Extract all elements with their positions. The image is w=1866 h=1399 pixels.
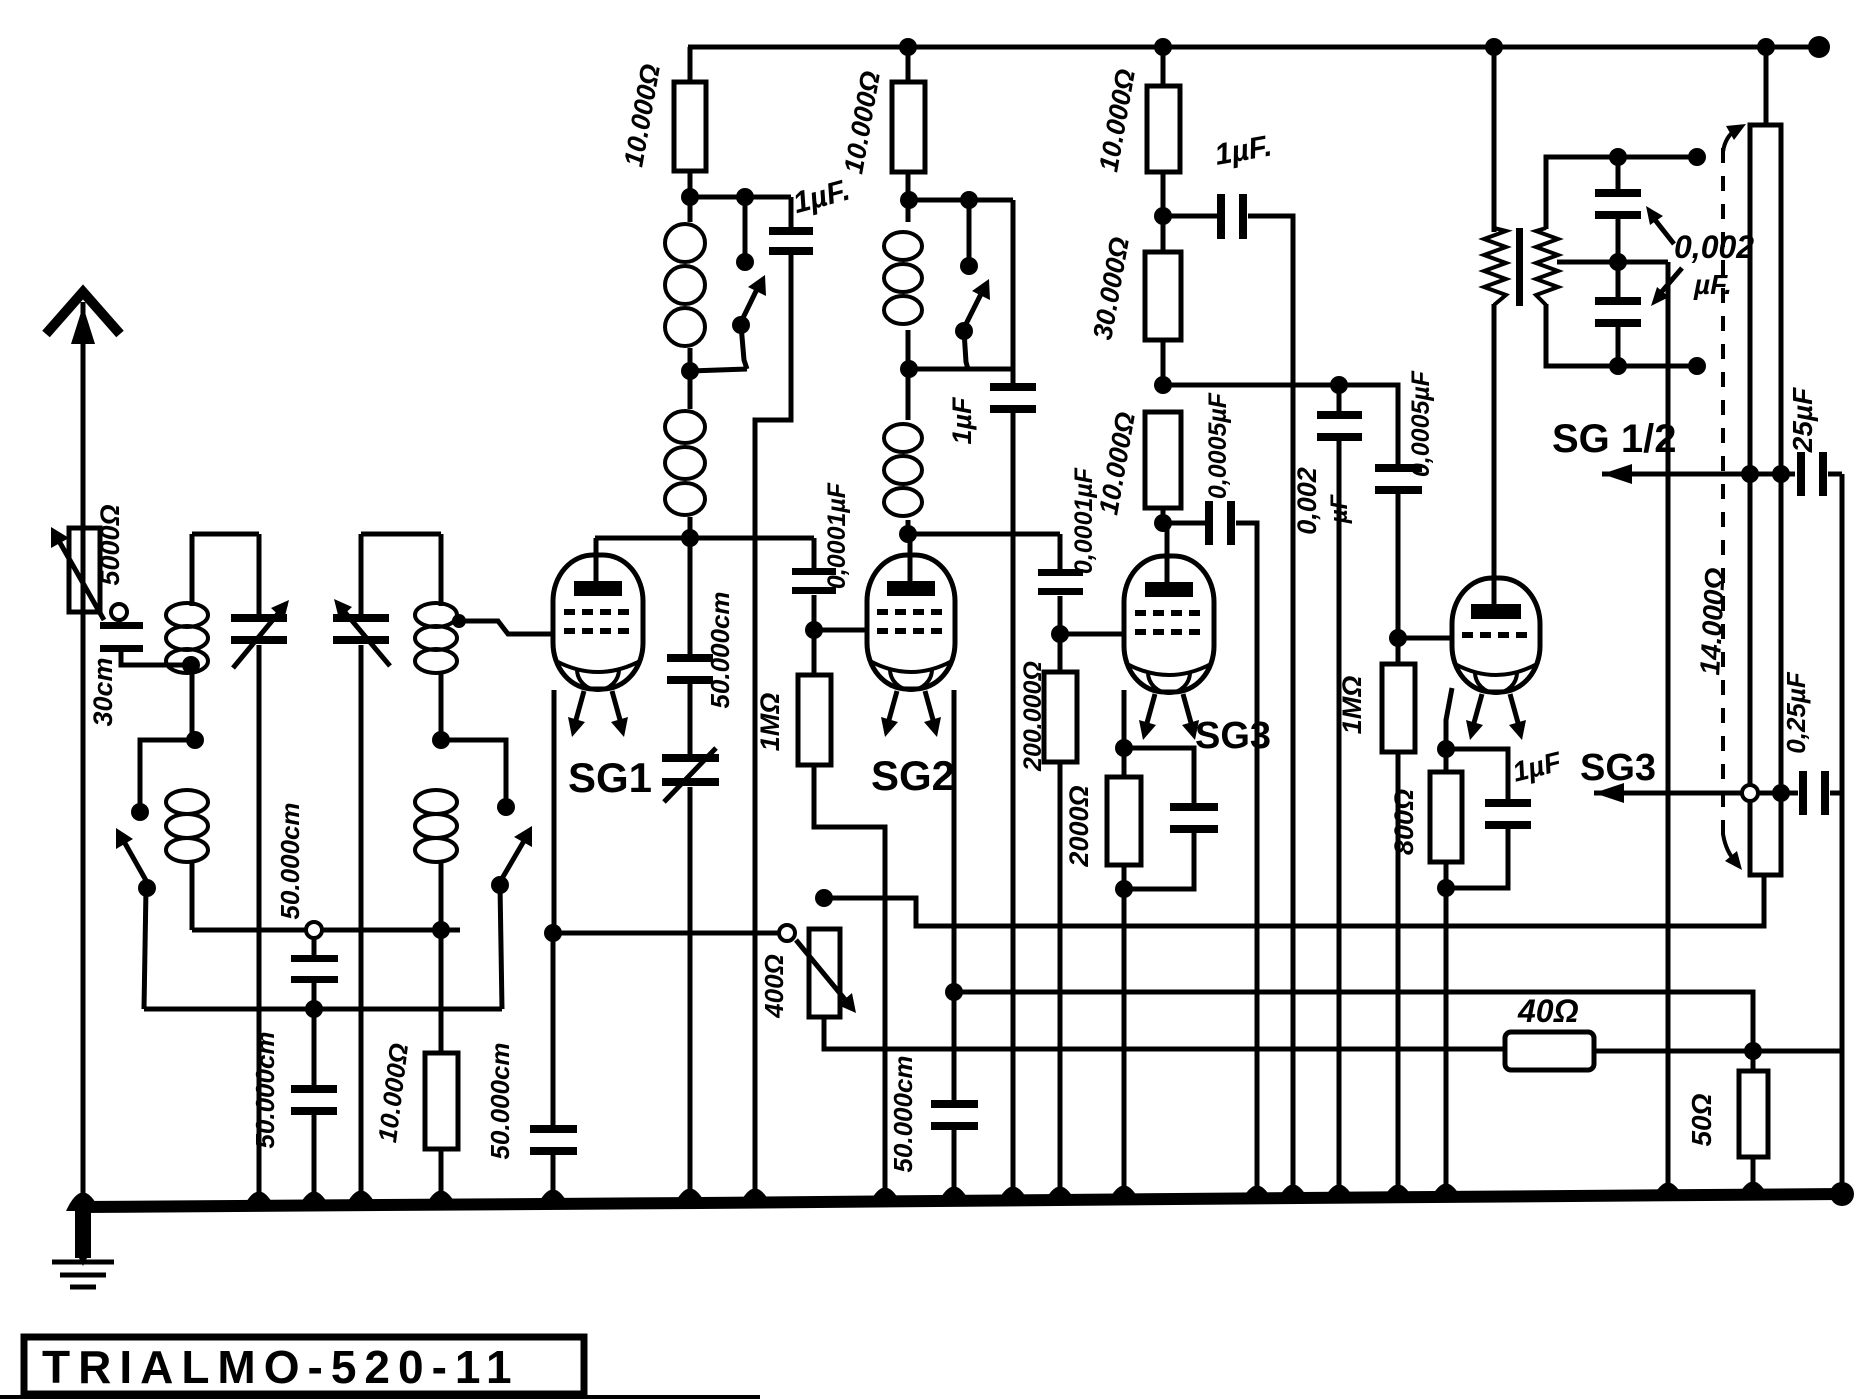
svg-text:SG2: SG2	[871, 752, 955, 799]
capacitor 1µF (screen bypass)	[1163, 214, 1220, 219]
resistor 2000Ω	[1122, 748, 1127, 777]
capacitor (SG3 cathode bypass)	[1124, 748, 1194, 809]
node SG2 anode	[899, 525, 917, 543]
wire to bus	[1444, 888, 1449, 1197]
capacitor 50.000cm (SG2 cathode)	[952, 992, 957, 1106]
antenna	[81, 302, 86, 1208]
svg-text:50.000cm: 50.000cm	[250, 1031, 280, 1148]
inductor L2 upper	[439, 534, 444, 606]
wire to SG2 grid	[814, 628, 867, 633]
wire SG 1/2 tap	[1602, 464, 1632, 484]
node coil tap	[681, 362, 699, 380]
wiper terminal	[111, 604, 127, 620]
wire pot bottom / filament rail	[824, 1017, 1505, 1049]
svg-text:50.000cm: 50.000cm	[275, 802, 305, 919]
svg-text:2000Ω: 2000Ω	[1064, 785, 1094, 867]
band switch S2	[441, 740, 506, 802]
svg-text:0,002: 0,002	[1292, 467, 1322, 535]
svg-text:µF.: µF.	[1693, 269, 1732, 300]
svg-text:SG 1/2: SG 1/2	[1552, 417, 1677, 461]
tap wire	[690, 369, 747, 371]
capacitor 0,0005µF (output grid)	[1375, 464, 1422, 472]
wire B+ top rail	[688, 45, 1822, 50]
tank1 top wire	[192, 532, 259, 537]
bus joint x=1257	[1240, 1186, 1274, 1205]
wire screen rail	[1163, 385, 1398, 465]
bus joint x=1060	[1043, 1187, 1077, 1206]
node	[1609, 253, 1627, 271]
capacitor 50.000cm (to bus)	[312, 1009, 317, 1090]
inductor L1 lower	[166, 790, 208, 814]
bus joint x=690	[673, 1189, 707, 1208]
node	[1609, 148, 1627, 166]
node SG2 cathode	[945, 983, 963, 1001]
svg-text:µF: µF	[1326, 493, 1353, 524]
resistor 800Ω	[1444, 749, 1449, 772]
potentiometer 400Ω	[779, 925, 795, 941]
wire secondary top	[1546, 157, 1697, 229]
node L1 tap	[186, 731, 204, 749]
svg-text:1µF: 1µF	[1509, 746, 1565, 788]
wire secondary bottom	[1546, 304, 1697, 366]
wire heater rail (SG2 cathode)	[954, 992, 1753, 1051]
bus joint x=1668	[1651, 1183, 1685, 1202]
resistor 40Ω	[1505, 1032, 1594, 1070]
node screen	[1154, 376, 1172, 394]
resistor 1MΩ (output grid leak)	[1396, 638, 1401, 664]
inductor SG2 upper	[906, 200, 911, 222]
node L2 tap	[432, 731, 450, 749]
node	[1772, 465, 1790, 483]
node SG3 anode	[1154, 514, 1172, 532]
node rail-divider	[1757, 38, 1775, 56]
svg-text:400Ω: 400Ω	[759, 954, 789, 1019]
resistor R4 10.000Ω	[1161, 47, 1166, 86]
coupling capacitor 0,0001µF	[812, 538, 817, 572]
bus joint x=83	[66, 1193, 100, 1212]
bus joint x=1293	[1276, 1185, 1310, 1204]
capacitor 30cm	[117, 618, 122, 624]
svg-text:0,0001µF: 0,0001µF	[1070, 467, 1098, 574]
node SG3 grid	[1051, 625, 1069, 643]
switch SG2	[967, 200, 972, 260]
wire SG2 cathode	[952, 690, 957, 992]
svg-text:1MΩ: 1MΩ	[1337, 676, 1367, 735]
svg-text:30.000Ω: 30.000Ω	[1087, 235, 1135, 342]
svg-text:50.000cm: 50.000cm	[888, 1055, 918, 1172]
node R2/osc coil	[900, 191, 918, 209]
potentiometer 5000Ω	[69, 528, 100, 612]
node	[1437, 879, 1455, 897]
inductor SG2 lower	[906, 369, 911, 420]
bus joint x=755	[738, 1189, 772, 1208]
svg-text:SG3: SG3	[1195, 715, 1271, 757]
svg-text:TRIALMO-520-11: TRIALMO-520-11	[42, 1341, 520, 1393]
resistor 200.000Ω	[1058, 634, 1063, 672]
capacitor 25µF	[1797, 452, 1805, 496]
resistor 10.000Ω (SG3 plate)	[1145, 412, 1181, 508]
node SG3 cathode	[1115, 739, 1133, 757]
ground	[75, 1205, 91, 1258]
variable capacitor C2	[361, 532, 441, 537]
title block	[24, 1337, 584, 1394]
wire SG1 cathode	[552, 690, 557, 933]
svg-text:10.000Ω: 10.000Ω	[372, 1042, 414, 1145]
bus joint x=1339	[1322, 1185, 1356, 1204]
capacitor tank-bottom	[312, 938, 317, 960]
variable capacitor (SG1 anode)	[688, 684, 693, 758]
capacitor 1µF (SG2 tank)	[990, 383, 1036, 391]
wire to grid	[1398, 636, 1452, 641]
tap wire SG2	[909, 367, 1013, 372]
svg-text:0,25µF: 0,25µF	[1781, 671, 1811, 754]
resistor 50Ω	[1751, 1051, 1756, 1071]
svg-text:1MΩ: 1MΩ	[755, 693, 785, 752]
oscillator coil SG1 top wire	[690, 195, 791, 200]
wire to bus	[1122, 889, 1127, 1199]
svg-text:50.000cm: 50.000cm	[485, 1042, 515, 1159]
capacitor 50.000cm (SG1 anode)	[688, 538, 693, 660]
band switch S1	[140, 740, 195, 806]
node tank2 bottom	[432, 921, 450, 939]
svg-text:0,0001µF: 0,0001µF	[823, 482, 851, 589]
capacitor 0,25µF	[1799, 771, 1807, 815]
resistor 30.000Ω	[1161, 216, 1166, 252]
node bus right end	[1830, 1182, 1854, 1206]
vacuum tube SG1	[594, 538, 599, 582]
capacitor 1µF (output cathode)	[1446, 749, 1508, 805]
capacitor 0,002µF upper	[1616, 157, 1621, 195]
node R1/tank	[681, 188, 699, 206]
capacitor 50.000cm (SG1 cathode)	[530, 1125, 577, 1133]
svg-text:0,0005µF: 0,0005µF	[1407, 370, 1435, 477]
vacuum tube output	[1452, 578, 1540, 692]
svg-text:1µF.: 1µF.	[1212, 129, 1274, 171]
wire to SG3 grid	[1060, 632, 1123, 637]
transformer secondary winding	[1536, 228, 1558, 305]
wire tap to bus	[1666, 262, 1671, 1196]
svg-text:40Ω: 40Ω	[1517, 993, 1579, 1029]
node tank bottom ring	[306, 922, 322, 938]
capacitor 0,002µF	[1337, 385, 1342, 416]
tank bottom wire	[192, 928, 460, 933]
svg-text:25µF: 25µF	[1787, 387, 1818, 453]
coupling capacitor 0,0005µF (SG3 anode)	[1167, 521, 1206, 526]
svg-text:14.000Ω: 14.000Ω	[1694, 567, 1731, 676]
transformer primary winding	[1484, 228, 1506, 305]
node	[1161, 172, 1166, 216]
wire right edge to bus	[1840, 474, 1845, 1194]
switch return wire	[144, 1007, 502, 1012]
svg-text:1µF: 1µF	[947, 396, 977, 445]
ground bus	[80, 1194, 1842, 1207]
node rail-R4	[1154, 38, 1172, 56]
inductor L2 lower	[415, 790, 457, 814]
osc coil SG2 top wire	[909, 198, 1013, 203]
wire SG1 anode	[595, 536, 814, 541]
bus joint x=885	[868, 1188, 902, 1207]
svg-text:50.000cm: 50.000cm	[705, 591, 735, 708]
bus joint x=1446	[1429, 1184, 1463, 1203]
resistor 14.000Ω divider	[1764, 47, 1769, 125]
node switch stub SG2	[960, 191, 978, 209]
svg-text:0,0005µF: 0,0005µF	[1204, 392, 1232, 499]
bus joint x=1013	[996, 1187, 1030, 1206]
wire primary to output tube anode	[1492, 304, 1497, 608]
svg-text:800Ω: 800Ω	[1389, 789, 1419, 855]
bus joint x=314	[297, 1192, 331, 1211]
svg-text:10.000Ω: 10.000Ω	[838, 69, 886, 176]
bus joint x=954	[937, 1187, 971, 1206]
bus joint x=1124	[1107, 1186, 1141, 1205]
svg-text:50Ω: 50Ω	[1686, 1093, 1717, 1146]
svg-text:SG3: SG3	[1580, 747, 1656, 789]
svg-text:5000Ω: 5000Ω	[95, 504, 125, 585]
wire SG2 anode to coupling	[908, 532, 1060, 537]
resistor R1 10.000Ω	[688, 47, 693, 82]
wire SG3 cathode	[1122, 690, 1127, 748]
wire secondary tap	[1557, 260, 1668, 265]
capacitor 0,002µF lower	[1616, 262, 1621, 303]
node switch stub	[736, 188, 754, 206]
svg-text:10.000Ω: 10.000Ω	[618, 62, 666, 169]
terminal bottom	[1688, 357, 1706, 375]
node	[1772, 784, 1790, 802]
node rail-R2	[899, 38, 917, 56]
node SG1 anode	[681, 529, 699, 547]
wire C1 to bus	[257, 645, 262, 1205]
inductor SG1 upper	[688, 197, 693, 222]
wire cathode bus	[544, 924, 562, 942]
svg-text:10.000Ω: 10.000Ω	[1093, 410, 1141, 517]
node pot top	[815, 889, 833, 907]
wire grid tap to SG1	[459, 621, 554, 634]
svg-text:10.000Ω: 10.000Ω	[1093, 67, 1141, 174]
vertical (tank cap branch)	[1011, 200, 1016, 390]
terminal top	[1688, 148, 1706, 166]
wire output cathode	[1446, 688, 1452, 749]
capacitor 1µF (tank SG1)	[789, 197, 794, 229]
wire SG1 cathode to bus	[551, 933, 556, 1131]
node output grid	[1389, 629, 1407, 647]
node SG2 grid	[805, 621, 823, 639]
wire SG3 tap	[1594, 783, 1624, 803]
bus joint x=1753	[1736, 1182, 1770, 1201]
vacuum tube SG2	[908, 536, 913, 582]
node L2 grid tap	[452, 614, 466, 628]
node rail end	[1808, 36, 1830, 58]
bus joint x=1398	[1381, 1185, 1415, 1204]
node rail-transformer	[1485, 38, 1503, 56]
bus joint x=361	[344, 1191, 378, 1210]
dashed wiper line	[1721, 148, 1725, 838]
inductor SG1 lower	[688, 371, 693, 409]
resistor 1MΩ (SG2 grid leak)	[812, 630, 817, 675]
svg-text:30cm: 30cm	[88, 657, 118, 726]
bus joint x=441	[424, 1191, 458, 1210]
svg-text:200.000Ω: 200.000Ω	[1019, 661, 1047, 772]
node output cathode	[1437, 740, 1455, 758]
svg-text:SG1: SG1	[568, 754, 652, 801]
node	[1609, 357, 1627, 375]
resistor R2 10.000Ω	[906, 47, 911, 82]
node	[1744, 1042, 1762, 1060]
svg-text:1µF.: 1µF.	[790, 173, 854, 220]
transformer core	[1516, 228, 1523, 306]
wire plate supply / transformer primary	[1492, 47, 1497, 232]
node	[1115, 880, 1133, 898]
inductor L1 upper	[190, 534, 195, 606]
node	[1741, 465, 1759, 483]
node tap SG2	[900, 360, 918, 378]
node C-chain	[305, 1000, 323, 1018]
vacuum tube SG3	[1165, 523, 1170, 586]
svg-text:0,002: 0,002	[1674, 229, 1754, 265]
wire pot top to divider	[824, 875, 1764, 926]
node	[1330, 376, 1348, 394]
variable capacitor C1	[257, 534, 262, 620]
switch SG1	[743, 197, 748, 256]
wire filament to right edge	[1753, 1049, 1842, 1054]
bus joint x=259	[242, 1192, 276, 1211]
node ring	[1742, 785, 1758, 801]
bus joint x=553	[536, 1190, 570, 1209]
resistor 10.000Ω (tank2 to bus)	[439, 930, 444, 1053]
coupling capacitor 0,0001µF (SG3 grid)	[1058, 534, 1063, 573]
